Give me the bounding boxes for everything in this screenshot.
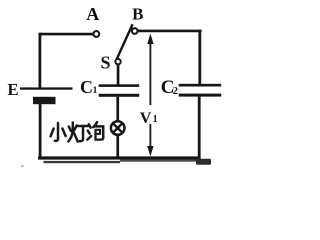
label 小灯泡 (hand-drawn strokes) bbox=[51, 122, 104, 141]
wire top-left horizontal (left corner to contact A) bbox=[39, 33, 94, 36]
light bulb (circle with X) bbox=[111, 121, 125, 135]
泡 : 勹 wrapper bbox=[93, 122, 97, 127]
scan smudge line under bottom wire (left, with gap) bbox=[44, 161, 121, 163]
switch S: pivot circle bbox=[115, 59, 120, 64]
wire C1 bottom plate to bulb bbox=[116, 97, 119, 122]
switch contact B: open circle bbox=[132, 28, 138, 34]
灯 : 丁 bbox=[77, 125, 88, 128]
wire right vertical lower (C2 to bottom wire) bbox=[198, 97, 201, 158]
svg-text:C: C bbox=[80, 77, 93, 97]
泡 : inner 巳 bbox=[96, 130, 101, 134]
小 bbox=[55, 123, 58, 141]
泡 : water radical bbox=[89, 124, 91, 127]
capacitor C1: top plate bbox=[99, 84, 140, 87]
svg-text:E: E bbox=[7, 80, 18, 99]
capacitor C2: top plate bbox=[179, 84, 222, 87]
capacitor C2: bottom plate bbox=[179, 94, 222, 97]
svg-text:V: V bbox=[140, 110, 152, 127]
wire bottom horizontal bbox=[38, 156, 201, 159]
svg-text:S: S bbox=[100, 53, 110, 73]
wire bulb to bottom wire bbox=[116, 134, 119, 158]
svg-text:B: B bbox=[132, 4, 143, 23]
灯 : 火 radical bbox=[68, 123, 72, 142]
node A: open terminal circle bbox=[93, 31, 99, 37]
svg-text:2: 2 bbox=[173, 86, 178, 97]
scan smudge under bottom wire (right, attached) bbox=[120, 159, 200, 161]
capacitor C1: bottom plate bbox=[99, 94, 140, 97]
wire right vertical upper (corner to C2 top plate) bbox=[198, 30, 201, 86]
svg-text:A: A bbox=[86, 4, 99, 24]
wire top-right horizontal (B to right corner) bbox=[138, 30, 202, 33]
svg-text:1: 1 bbox=[93, 86, 98, 96]
battery E: long thin plate bbox=[20, 87, 73, 89]
scan blob bottom-right corner bbox=[196, 159, 211, 165]
wire left vertical lower (battery down to bottom wire) bbox=[39, 104, 42, 159]
faint scan speck bottom-left bbox=[21, 165, 24, 168]
voltage arrow: lower arrowhead bbox=[147, 146, 153, 156]
wire S pivot down to C1 bbox=[117, 64, 120, 86]
svg-text:1: 1 bbox=[153, 114, 158, 125]
battery E: short thick plate bbox=[33, 97, 56, 104]
voltage arrow: upper arrowhead bbox=[147, 34, 153, 44]
wire left vertical upper (corner down to battery) bbox=[39, 33, 42, 89]
switch S: lever arm bbox=[116, 24, 132, 60]
voltage arrow: upper shaft segment bbox=[149, 41, 151, 105]
voltage arrow: lower shaft segment bbox=[149, 124, 151, 148]
